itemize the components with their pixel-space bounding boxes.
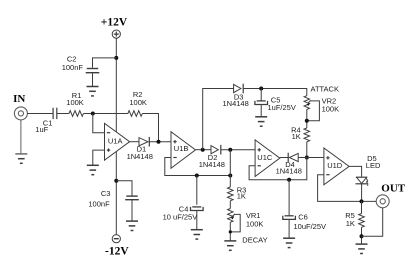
node U1B out [201, 148, 205, 152]
node R5/jack sleeve [360, 234, 364, 238]
LED D5 [356, 177, 369, 186]
ground (C5) [255, 117, 267, 126]
wire R1 to R2 [84, 113, 128, 115]
ground (input jack) [15, 154, 27, 163]
wire C2 to ground [92, 73, 94, 87]
svg-text:U1C: U1C [257, 153, 273, 162]
capacitor C6 (polarized) [283, 216, 296, 220]
ground (C3) [126, 221, 138, 230]
svg-text:IN: IN [13, 93, 25, 105]
wire R3 to VR1 [229, 201, 231, 209]
svg-text:10 uF/25V: 10 uF/25V [163, 213, 198, 222]
wire U1C out to D4 [280, 157, 288, 159]
svg-text:1K: 1K [237, 191, 246, 200]
svg-text:ATTACK: ATTACK [311, 84, 339, 93]
diode D4 1N4148 (points left) [288, 153, 298, 163]
resistor R4 1K [304, 128, 310, 142]
VR1 wiper arrow [232, 214, 235, 217]
svg-text:1uF/25V: 1uF/25V [268, 103, 296, 112]
ground (C6) [283, 238, 295, 247]
wire C3 branch [116, 181, 132, 196]
capacitor C5 (polarized) [255, 101, 268, 105]
wire jack to C1 [27, 113, 52, 115]
svg-text:-12V: -12V [105, 246, 129, 258]
wire U1A + input to ground [93, 150, 105, 165]
wire U1B out up to D3 [203, 89, 234, 150]
input jack J1 [14, 107, 27, 120]
svg-text:U1D: U1D [327, 161, 343, 170]
wire D1 to U1B + [149, 141, 171, 143]
node D2 cathode [228, 148, 232, 152]
svg-text:100K: 100K [246, 219, 264, 228]
wire D3 to ATTACK corner [243, 89, 307, 96]
svg-text:100nF: 100nF [62, 63, 84, 72]
+12V terminal [112, 30, 120, 38]
wire +12V rail down to U1A V+ [115, 38, 117, 132]
resistor R1 [69, 111, 84, 117]
op-amp U1D [324, 148, 349, 185]
wire R2 to D1 node [143, 114, 159, 142]
wire D2 node down to R3 [229, 150, 231, 187]
node output [360, 199, 364, 203]
svg-text:1N4148: 1N4148 [276, 166, 302, 175]
op-amp U1A [105, 123, 130, 160]
svg-text:1K: 1K [346, 219, 355, 228]
wire U1D out to LED [349, 166, 362, 176]
svg-text:+12V: +12V [101, 16, 128, 28]
wire C5 to ground [260, 105, 262, 117]
resistor R3 1K [228, 187, 234, 201]
node D1/R2/U1B [157, 140, 161, 144]
diode D3 1N4148 [234, 84, 244, 94]
svg-text:1N4148: 1N4148 [199, 160, 225, 169]
wire C5 top lead [260, 89, 262, 101]
ground (output) [356, 244, 368, 253]
wire C1 to R1 [57, 113, 69, 115]
wire C6 to ground [288, 219, 290, 237]
diode D1 1N4148 [139, 137, 149, 147]
svg-text:100K: 100K [129, 98, 147, 107]
wire node A down to U1A inverting input [93, 114, 105, 133]
node C6 [287, 178, 291, 182]
wire C3 to ground [131, 200, 133, 221]
ground (C2) [87, 87, 99, 96]
wire C2 branch [93, 58, 117, 68]
wire D2 to U1C + [221, 149, 255, 151]
svg-text:100K: 100K [322, 104, 340, 113]
op-amp U1B [171, 132, 196, 169]
VR1 wiper loop wire [230, 214, 240, 232]
svg-text:1K: 1K [292, 132, 301, 141]
wire jack sleeve down [20, 120, 22, 154]
resistor R5 1K [361, 201, 363, 213]
wire jack sleeve [362, 208, 383, 236]
capacitor C1 [53, 108, 57, 119]
node +12V/C2 [114, 56, 118, 60]
node -12V/C3 [114, 179, 118, 183]
wire C6 top lead [288, 180, 290, 216]
resistor R2 [128, 111, 142, 117]
capacitor C3 [125, 196, 139, 200]
svg-text:100nF: 100nF [88, 199, 110, 208]
svg-text:10uF/25V: 10uF/25V [294, 222, 327, 231]
svg-text:C3: C3 [101, 189, 111, 198]
node feedback/C4 [195, 174, 199, 178]
node D3/C5 [259, 87, 263, 91]
svg-text:OUT: OUT [381, 183, 406, 195]
wire LED to output node [361, 184, 363, 202]
wire U1B out to D2 [196, 149, 212, 151]
capacitor C2 [86, 69, 100, 73]
potentiometer VR2 100K [304, 96, 309, 110]
-12V rail from U1A V- down [115, 151, 117, 234]
VR2 wiper loop wire [307, 101, 320, 121]
node feedback/D2 cathode line [228, 174, 232, 178]
wire R4 to D4 node [306, 142, 308, 158]
wire U1B - feedback [165, 158, 231, 176]
node R4/D4/U1D [305, 156, 309, 160]
svg-text:1uF: 1uF [35, 125, 48, 134]
node VR2/R4 [305, 119, 309, 123]
wire C4 to ground [196, 211, 198, 230]
svg-text:DECAY: DECAY [242, 236, 267, 245]
potentiometer VR1 100K [228, 209, 233, 223]
wire D4 to U1D + [298, 157, 324, 159]
diode D2 1N4148 [211, 145, 221, 155]
svg-text:LED: LED [366, 161, 381, 170]
output jack J2 [376, 195, 389, 208]
-12V terminal [112, 235, 120, 243]
svg-text:1N4148: 1N4148 [127, 152, 153, 161]
wire U1A out to D1 [130, 141, 139, 143]
svg-text:1N4148: 1N4148 [223, 99, 249, 108]
svg-text:C6: C6 [298, 213, 308, 222]
wire R5 to ground [361, 227, 363, 243]
VR2 wiper arrow [308, 101, 311, 104]
wire U1C - feedback [249, 158, 307, 180]
ground (U1A +) [87, 165, 99, 174]
svg-text:U1B: U1B [174, 144, 189, 153]
capacitor C4 (polarized) [191, 207, 204, 211]
node A [91, 112, 95, 116]
svg-text:100K: 100K [66, 98, 84, 107]
ground (VR1) [224, 241, 236, 250]
op-amp U1C [255, 140, 280, 177]
svg-text:U1A: U1A [108, 137, 123, 146]
ground (C4) [191, 230, 203, 239]
wire U1D - feedback [318, 175, 377, 202]
node C4 branch wire [196, 176, 198, 205]
